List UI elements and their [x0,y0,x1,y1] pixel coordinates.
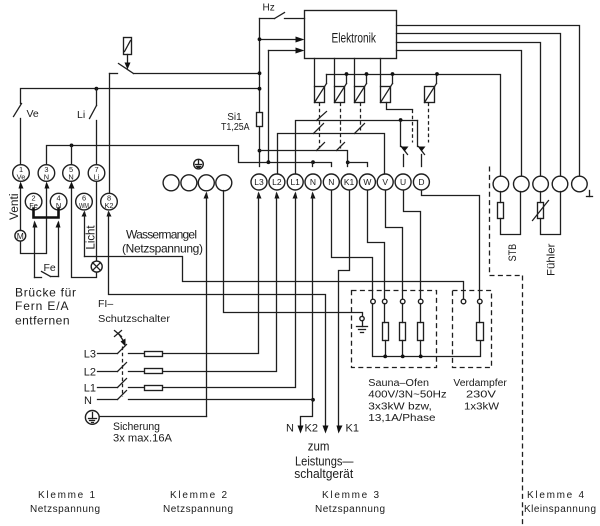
wire Wassermangel line to Verdampfer [97,257,464,300]
svg-text:D: D [418,177,424,187]
svg-text:3x max.16A: 3x max.16A [113,433,173,445]
svg-text:Fühler: Fühler [546,243,558,276]
svg-text:N: N [310,177,316,187]
main terminal U [395,174,411,190]
svg-text:Fe: Fe [44,262,56,274]
main terminal V [377,174,393,190]
main terminal N2 [323,174,339,190]
FI breaker symbol [115,331,126,397]
svg-text:230V: 230V [466,390,496,401]
Elektronik output 3 [397,43,541,177]
Verdampfer dashed box [453,291,492,368]
Elektronik output 1 (right) [397,26,580,177]
sauna heater 1 [383,323,389,341]
main terminal N [305,174,321,190]
relay contact K2 (top-left) [110,64,262,76]
svg-text:M: M [17,231,24,241]
svg-text:FI–: FI– [98,298,113,310]
sauna heater 2 [400,323,406,341]
svg-text:Brücke für: Brücke für [15,286,76,300]
FI pole N [98,391,313,400]
wire relay common line [327,72,501,176]
svg-text:Licht: Licht [86,225,98,250]
svg-text:K2: K2 [305,423,318,435]
svg-text:Fern E/A: Fern E/A [15,299,69,313]
svg-text:Ve: Ve [27,108,39,120]
fuse L1 [145,386,163,391]
svg-text:schaltgerät: schaltgerät [294,466,353,481]
wire fuse to L3 terminal [259,127,261,167]
sauna terminal 3 [400,299,405,304]
terminal 6 WM [76,193,93,210]
wire L3 drop to FI [163,192,262,354]
wire N drop to N row [311,192,316,402]
lamp (Licht) [91,261,102,272]
svg-text:K1: K1 [346,423,359,435]
fuse Si1 [221,112,263,133]
svg-text:L1: L1 [84,383,96,395]
svg-text:V: V [382,177,388,187]
terminal 8 K2 [101,193,118,210]
terminal 2 Fe [25,193,42,210]
Fuehler sensor [533,192,561,235]
wire arrow input 1 to Elektronik [258,37,305,43]
svg-text:3x3kW bzw,: 3x3kW bzw, [368,401,432,412]
relay coil 4 [381,59,393,103]
switch Fe [35,262,59,278]
svg-text:entfernen: entfernen [15,314,70,328]
ground symbol right [587,191,593,197]
relay coil 1 [315,59,327,103]
PE terminal symbol [194,159,204,169]
Sauna-Ofen dashed box [352,291,437,368]
svg-text:T1,25A: T1,25A [221,122,250,133]
verdampfer terminal 1 [461,299,466,304]
Klemme 4 dashed separator [490,167,523,526]
wire Ve/Li supply bus [21,87,262,104]
sauna N bus [373,304,481,359]
svg-text:U: U [400,177,406,187]
svg-text:L3: L3 [254,177,264,187]
changeover contact D [418,121,426,167]
wire L2 drop to FI [163,192,280,372]
terminal 4 N [50,193,67,210]
relay coil 2 [335,59,347,103]
wire lamp to terminal5 (N return) [69,182,97,278]
Elektronik output 2 [397,34,561,177]
svg-text:Elektronik: Elektronik [331,30,376,45]
wire N step line (terminals 3/5 to N,N2) [47,144,332,167]
FI pole L3 [98,345,145,354]
wire sauna T2 to heater1 [384,304,386,323]
terminal 7 Li [88,165,105,182]
switch Ve [14,104,39,165]
relay 3 actuation dashes [360,103,362,131]
wire verdampfer T2 to heater [479,304,481,323]
main terminal W [359,174,375,190]
svg-text:L3: L3 [84,349,96,361]
svg-text:N: N [68,172,73,181]
motor M [15,230,26,241]
wire contact K2 to terminal 8 [109,74,111,194]
right terminal 2 [514,176,530,192]
right terminal 3 [533,176,549,192]
actuation arrow from coil K2 [125,55,131,70]
svg-text:Netzspannung: Netzspannung [163,504,233,515]
wire U to sauna T4 [404,191,421,300]
wire Fe loop left [33,221,38,278]
middle terminal D (WM sensor N) [216,175,232,191]
wire sauna T4 to heater3 [420,304,422,323]
svg-text:Venti: Venti [9,194,21,221]
svg-text:zum: zum [308,439,330,454]
FI pole L1 [98,379,145,388]
svg-text:Klemme 2: Klemme 2 [170,490,227,501]
sauna terminal 2 [382,299,387,304]
main terminal L3 [251,174,267,190]
wire N2 to sauna T1 [332,191,373,300]
svg-text:Klemme 1: Klemme 1 [38,490,95,501]
svg-text:Wassermangel: Wassermangel [126,228,197,242]
sauna heater 3 [418,323,424,341]
svg-text:(Netzspannung): (Netzspannung) [122,242,203,256]
Elektronik output 4 [397,51,522,177]
svg-text:N: N [286,423,294,435]
svg-text:L1: L1 [290,177,300,187]
FI pole L2 [98,363,145,372]
svg-text:Klemme 4: Klemme 4 [527,490,584,501]
svg-text:Li: Li [94,172,100,181]
switch Li [77,89,97,165]
svg-text:Sicherung: Sicherung [113,421,160,433]
relay 2 actuation dashes [340,103,342,149]
svg-text:K1: K1 [344,177,355,187]
svg-text:Kleinspannung: Kleinspannung [524,504,596,515]
STB resistor [498,192,521,235]
svg-text:Netzspannung: Netzspannung [30,504,100,515]
svg-text:Klemme 3: Klemme 3 [322,490,379,501]
wire W to sauna T2 [368,191,385,300]
wire K1 out [337,191,359,435]
terminal 1 Ve [13,165,30,182]
svg-text:1x3kW: 1x3kW [464,401,500,412]
PE source terminal [85,411,99,425]
contact row A (L1) [296,112,418,175]
wire sauna T3 to heater2 [402,304,404,323]
terminal 3 N [38,165,55,182]
relay coil K2 (top-left) [124,38,132,55]
Elektronik box U1 [305,11,397,59]
wire N out arrow [286,400,313,435]
relay 4 actuation link [387,103,413,143]
wire terminal7 to lamp [96,182,98,262]
svg-text:WM: WM [79,201,89,210]
relay coil 5 [425,75,437,103]
fuse L3 [145,352,163,357]
svg-text:Sauna–Ofen: Sauna–Ofen [368,378,429,389]
contact row B (L2) [278,124,385,175]
right terminal 4 [552,176,568,192]
svg-text:W: W [363,177,371,187]
svg-text:13,1A/Phase: 13,1A/Phase [368,413,436,424]
svg-text:STB: STB [507,244,519,262]
wire V to sauna T3 [386,191,403,300]
main terminal L1 [287,174,303,190]
svg-text:Hz: Hz [263,3,275,14]
svg-text:Schutzschalter: Schutzschalter [98,313,171,325]
wire L3 control riser (Hz/fuse vertical) [259,19,261,113]
svg-text:N: N [84,395,92,407]
wire middle terminal C to PE bar [100,192,209,417]
bridge 2/Fe-4/N [34,209,59,218]
contact row C (L3 to K1/W) [258,143,368,167]
right terminal 1 [493,176,509,192]
svg-text:N: N [328,177,334,187]
svg-text:L2: L2 [84,366,96,378]
middle terminal C (WM sensor) [198,175,214,191]
wire middle terminal D to sauna earth [224,191,363,317]
main terminal L2 [269,174,285,190]
wire D to Verdampfer [422,191,480,300]
relay coil 3 [355,59,367,103]
svg-text:Verdampfer: Verdampfer [453,378,507,389]
middle terminal A (spare) [163,175,179,191]
wire terminal8 K2 line [107,211,329,434]
relay 5 actuation dashes [428,103,430,143]
relay 1 actuation dashes [319,103,321,149]
wire terminal6 WM to lamp junction [82,211,97,257]
svg-text:N: N [44,172,49,181]
wire Fe loop right [56,221,61,277]
sauna earth terminal [357,316,368,332]
svg-text:Li: Li [77,109,85,121]
main terminal D [413,174,429,190]
svg-text:Netzspannung: Netzspannung [315,504,385,515]
right terminal 5 [572,176,588,192]
svg-text:K2: K2 [104,201,113,210]
wire arrow input 2 to Elektronik (N) [269,48,305,163]
switch Hz [260,3,305,19]
svg-text:L2: L2 [272,177,282,187]
wire M to terminal3 [21,182,50,254]
sauna terminal 4 [418,299,423,304]
changeover contact U [401,121,409,167]
sauna terminal 1 [371,299,376,304]
terminal 5 N [63,165,80,182]
middle terminal B (spare) [181,175,197,191]
verdampfer terminal 2 [478,299,483,304]
svg-text:Ve: Ve [17,172,26,181]
wire terminal1 to M [19,182,24,231]
wire L1 drop to FI [163,192,298,388]
main terminal K1 [341,174,357,190]
svg-text:400V/3N~50Hz: 400V/3N~50Hz [368,390,446,401]
fuse L2 [145,369,163,374]
verdampfer heater [477,323,484,341]
